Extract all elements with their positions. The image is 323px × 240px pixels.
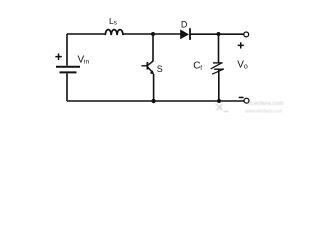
svg-text:S: S — [157, 64, 163, 74]
svg-text:eLecfans.com: eLecfans.com — [248, 101, 284, 107]
svg-text:in: in — [84, 59, 89, 66]
svg-text:D: D — [181, 20, 188, 30]
svg-text:www.elecfans.com: www.elecfans.com — [245, 109, 283, 114]
svg-text:o: o — [244, 64, 248, 71]
svg-text:f: f — [200, 65, 202, 72]
